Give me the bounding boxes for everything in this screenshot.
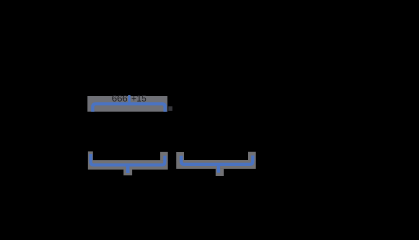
left underbrace bbox=[91, 154, 165, 173]
right underbrace bbox=[181, 156, 253, 173]
selection highlight band bbox=[87, 96, 167, 112]
right underbrace halo bbox=[176, 152, 256, 176]
svg-text:+15: +15 bbox=[131, 93, 146, 103]
left underbrace halo bbox=[88, 151, 168, 175]
overbrace bbox=[93, 95, 165, 112]
handle nub bbox=[168, 106, 172, 111]
